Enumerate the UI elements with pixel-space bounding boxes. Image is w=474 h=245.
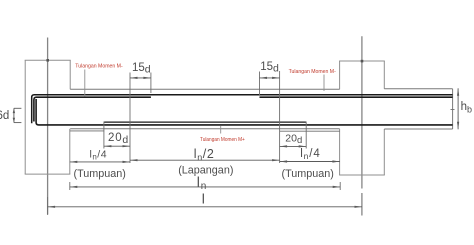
svg-text:15d: 15d (132, 62, 151, 76)
svg-text:20d: 20d (108, 132, 129, 146)
dim 20d left line (104, 145, 130, 147)
node centerline dot right (361, 60, 364, 63)
dim ln line (70, 186, 340, 188)
beam bottom outline (70, 128, 452, 130)
dim hb line (457, 88, 459, 129)
svg-text:(Tumpuan): (Tumpuan) (282, 168, 334, 180)
dim ln/4 right line (280, 161, 340, 163)
svg-text:Tulangan Momen M-: Tulangan Momen M- (75, 64, 122, 70)
dim 15d right extension lines (260, 71, 280, 163)
top rebar B support bar left with hook (34, 97, 151, 121)
column K2 centerline (361, 36, 363, 215)
dim 15d left arrows (130, 77, 151, 79)
top rebar A continuous with left hook down (32, 95, 453, 124)
svg-text:hb: hb (461, 101, 472, 114)
dim 20d right extension (280, 122, 340, 149)
svg-text:(Lapangan): (Lapangan) (178, 165, 233, 177)
svg-text:Tulangan Momen M-: Tulangan Momen M- (289, 69, 336, 75)
svg-text:ln/4: ln/4 (300, 148, 321, 161)
leader right M- (323, 75, 325, 92)
svg-text:15d: 15d (260, 61, 279, 75)
svg-text:6d: 6d (0, 110, 9, 122)
leader left M- (84, 70, 86, 97)
dim l line (48, 206, 362, 208)
column K1 centerline (47, 38, 49, 215)
column K1 outline above beam (25, 60, 71, 174)
dim 20d left extension (70, 122, 104, 149)
svg-text:ln/4: ln/4 (90, 149, 108, 162)
top rebar B support bar right (260, 96, 453, 98)
node centerline dot left (46, 59, 49, 62)
dim ln/2 line (130, 159, 280, 161)
bottom rebar extra midspan (104, 121, 306, 123)
svg-text:20d: 20d (285, 132, 302, 146)
svg-text:(Tumpuan): (Tumpuan) (74, 168, 126, 180)
beam right end outline (452, 89, 454, 129)
dim ln extension right (339, 182, 341, 190)
column K2 outline below beam (339, 129, 385, 175)
column K2 outline above beam (339, 61, 385, 89)
hook dim 6d bracket (14, 108, 22, 122)
dim ln/4 left line (70, 161, 130, 163)
beam top outline (70, 88, 452, 91)
dim hb tick (451, 109, 455, 111)
svg-text:l: l (202, 191, 205, 207)
dim 15d right arrows (260, 77, 280, 79)
dim l extension left (47, 197, 49, 215)
leader middle M+ (220, 126, 222, 134)
bottom rebar main with left hook up (36, 99, 453, 125)
dim 20d right line (280, 145, 307, 147)
svg-text:ln/2: ln/2 (194, 147, 215, 162)
dim ln extension left (69, 182, 71, 190)
dim 15d left extension lines (130, 73, 151, 164)
column K1 outline below beam (25, 129, 71, 174)
svg-text:Tulangan Momen M+: Tulangan Momen M+ (200, 137, 245, 143)
